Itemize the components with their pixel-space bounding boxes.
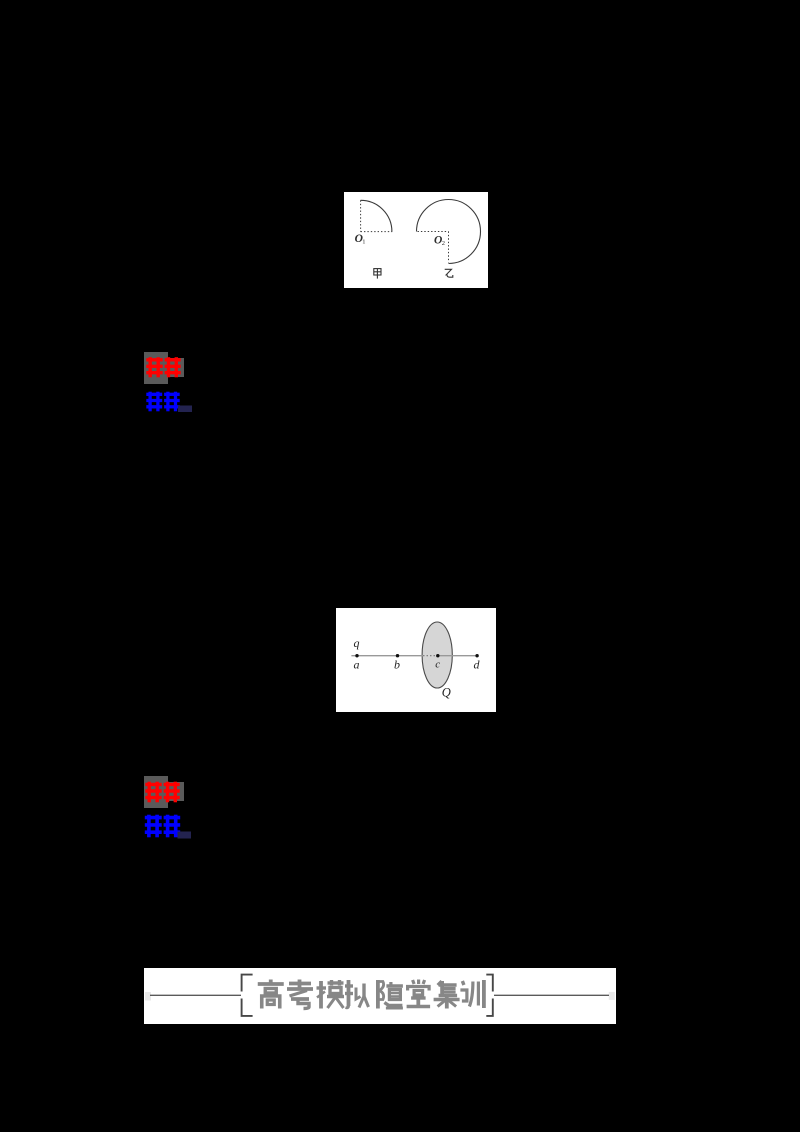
glyph gao — [258, 980, 284, 1009]
red text jiexi set 1 — [146, 357, 180, 377]
svg-text:b: b — [394, 658, 400, 672]
navy tail 1 — [178, 406, 192, 413]
ellipse Q — [422, 622, 452, 688]
dotted radius horizontal O1 — [361, 231, 393, 233]
svg-text:d: d — [474, 658, 481, 672]
left bracket — [242, 975, 253, 1016]
blue text daan set 2 — [145, 815, 180, 838]
highlight block 2 (gray shading) — [140, 772, 200, 844]
svg-text:2: 2 — [442, 240, 445, 247]
right bracket — [486, 975, 493, 1016]
svg-text:Q: Q — [442, 686, 451, 700]
label yi (CJK) — [445, 269, 453, 277]
svg-text:c: c — [435, 659, 440, 671]
wire a to ellipse — [351, 655, 422, 657]
glyph kao — [287, 980, 313, 1009]
svg-text:a: a — [354, 658, 360, 672]
node d — [475, 654, 478, 657]
figure box 2 (charge and plate Q) — [336, 608, 496, 712]
glyph sui — [378, 980, 403, 1009]
left rule gray pad — [145, 992, 151, 1001]
navy tail 2 — [178, 832, 192, 839]
svg-text:1: 1 — [362, 239, 365, 246]
three-quarter circle arc O2 — [417, 200, 481, 264]
dotted radius vertical O2 — [448, 232, 450, 263]
right rule — [494, 994, 609, 996]
dotted radius vertical O1 — [360, 200, 362, 231]
glyph tang — [407, 980, 431, 1007]
glyph ji — [434, 981, 460, 1009]
quarter-circle arc O1 — [361, 200, 392, 231]
glyph xun — [460, 980, 484, 1008]
glyph mo — [317, 980, 345, 1009]
node c — [436, 654, 439, 657]
svg-text:q: q — [354, 636, 360, 650]
banner glyphs — [258, 980, 484, 1009]
dotted wire inside ellipse — [423, 655, 436, 657]
red text jiexi set 2 — [145, 782, 179, 803]
banner strip — [144, 968, 616, 1024]
node b — [396, 654, 399, 657]
highlight block 1 (gray shading) — [140, 348, 200, 418]
figure box 1 (two circle diagrams) — [344, 192, 488, 288]
node a — [355, 654, 358, 657]
dotted radius horizontal O2 — [418, 231, 449, 233]
blue text daan set 1 — [146, 392, 179, 412]
right rule gray pad — [609, 992, 615, 1000]
glyph ni — [345, 980, 369, 1008]
label jia (CJK) — [374, 269, 381, 279]
left rule — [150, 994, 241, 996]
wire c to d — [438, 655, 477, 657]
